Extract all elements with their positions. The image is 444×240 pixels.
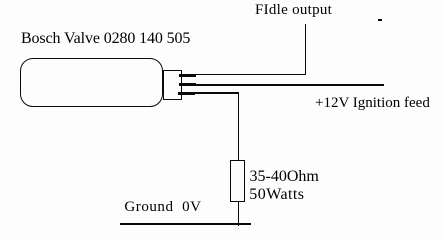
label: +12V Ignition feed bbox=[315, 96, 430, 111]
resistor R1 (35-40 Ohm 50 Watts) bbox=[230, 160, 246, 203]
wire: pin1 horizontal to FIdle riser bbox=[195, 74, 306, 75]
label: Bosch Valve 0280 140 505 bbox=[21, 31, 190, 47]
connector housing on valve bbox=[163, 70, 182, 100]
valve body (Bosch valve outline) bbox=[20, 58, 163, 107]
pin 2 (middle, +12V) bbox=[179, 83, 196, 86]
wire: pin2 horizontal +12V ignition feed bbox=[195, 84, 384, 85]
label: FIdle output bbox=[255, 3, 332, 18]
ground rail (0V line) bbox=[120, 223, 251, 225]
label: 35-40Ohm bbox=[250, 169, 319, 185]
wire: resistor bottom lead to ground bbox=[238, 202, 239, 226]
label: Ground 0V bbox=[124, 200, 201, 215]
wire: FIdle vertical riser bbox=[305, 24, 306, 76]
wire: pin3 horizontal to resistor drop bbox=[194, 92, 239, 93]
stray ink speck bbox=[378, 19, 382, 21]
pin 1 (top, FIdle output) bbox=[179, 74, 196, 77]
label: 50Watts bbox=[249, 187, 304, 203]
pin 3 (bottom, resistor) bbox=[178, 92, 195, 95]
wire: vertical drop to resistor bbox=[238, 92, 239, 160]
